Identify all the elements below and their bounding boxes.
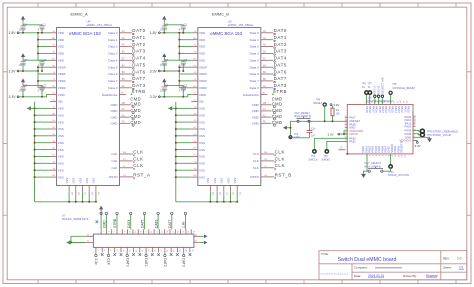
svg-text:DAT5: DAT5: [274, 62, 287, 67]
svg-text:3: 3: [107, 231, 109, 232]
svg-text:eMMC_153_FBGA: eMMC_153_FBGA: [87, 23, 112, 27]
svg-text:CMD: CMD: [110, 109, 118, 113]
power label 3.3V mcu top: [330, 104, 332, 106]
svg-text:3.3V: 3.3V: [9, 95, 17, 99]
MCU U6 body: [347, 105, 413, 154]
EMMC_A data pins right: [108, 28, 145, 83]
svg-text:EMMC_B: EMMC_B: [212, 11, 229, 16]
wire CONSOLE_RESET line: [390, 95, 392, 105]
svg-text:Data 3: Data 3: [250, 86, 259, 90]
wire EMMC_B bottom VSS net: [176, 191, 238, 203]
wire reset cap gnd: [291, 137, 310, 139]
svg-text:10: 10: [122, 250, 124, 252]
svg-text:PA20: PA20: [407, 106, 411, 113]
svg-text:26: 26: [172, 250, 174, 252]
svg-text:C6: C6: [24, 22, 28, 26]
svg-text:VDi: VDi: [58, 100, 63, 104]
svg-text:VSS: VSS: [58, 148, 64, 152]
svg-text:Sheet:: Sheet:: [443, 266, 452, 270]
svg-text:CLK: CLK: [275, 156, 285, 161]
svg-text:31: 31: [181, 231, 183, 233]
svg-text:RSTN: RSTN: [109, 175, 117, 179]
capacitor C3 4.7uF: [38, 83, 47, 92]
capacitor C14 1uF reset: [309, 121, 311, 138]
svg-text:4.7uF: 4.7uF: [179, 27, 186, 31]
testpoint STRAP_JOYCON ring: [389, 165, 392, 168]
svg-text:VDDi: VDDi: [199, 93, 206, 97]
wire 1.8V net B: [160, 32, 191, 34]
svg-text:2: 2: [97, 250, 99, 251]
connector U7 body: [93, 234, 193, 247]
svg-text:VSS: VSS: [199, 113, 205, 117]
EMMC_A CLK pins: [111, 149, 143, 170]
power symbol GND above C bank1 A: [21, 16, 25, 20]
svg-text:Hkamee: Hkamee: [426, 274, 438, 278]
svg-text:TP5: TP5: [392, 84, 397, 86]
ground arrow select: [361, 174, 365, 178]
EMMC_A pin Data 3 / DAT3: [120, 87, 132, 89]
svg-text:VSS: VSS: [220, 178, 224, 184]
svg-text:VSS: VSS: [199, 168, 205, 172]
svg-text:RST_A: RST_A: [133, 172, 150, 177]
border row ticks: [3, 72, 471, 215]
svg-text:DAT2: DAT2: [132, 42, 145, 47]
svg-text:STRAP_JOYCON: STRAP_JOYCON: [388, 173, 409, 177]
svg-text:MOLEX_90068-0374: MOLEX_90068-0374: [62, 217, 89, 221]
wire EMMC_B VSS bus: [175, 102, 192, 202]
svg-text:1.8V: 1.8V: [150, 31, 158, 35]
svg-text:VDD: VDD: [58, 38, 65, 42]
wire PA31 SWDIO: [327, 141, 348, 149]
svg-text:C8: C8: [43, 58, 47, 62]
svg-text:35: 35: [192, 231, 194, 233]
wire 3.3V net a A: [19, 70, 38, 72]
svg-text:CMD: CMD: [252, 109, 260, 113]
push button KEY_RESET: [297, 120, 299, 122]
svg-text:VSS: VSS: [199, 134, 205, 138]
svg-text:27: 27: [171, 231, 173, 233]
svg-text:Date:: Date:: [354, 274, 361, 278]
svg-text:3.3V: 3.3V: [328, 132, 334, 136]
svg-text:20: 20: [153, 250, 155, 252]
wire reset button gnd: [291, 121, 297, 136]
testpoint RESET ring: [323, 103, 326, 106]
capacitor C6 100nF: [160, 22, 169, 31]
svg-text:VSS: VSS: [199, 155, 205, 159]
svg-text:23: 23: [160, 231, 162, 233]
border column ticks bottom: [38, 280, 456, 284]
MCU left pins: [345, 116, 364, 144]
svg-text:30: 30: [184, 250, 186, 252]
svg-text:VSS: VSS: [85, 178, 89, 184]
svg-text:3.3v: 3.3v: [94, 258, 98, 265]
capacitor C6 100nF: [19, 22, 28, 31]
svg-text:CMD: CMD: [252, 103, 260, 107]
no-connect arrow right 1: [204, 235, 208, 239]
svg-text:CMD: CMD: [110, 103, 118, 107]
svg-text:VDDF: VDDF: [58, 86, 66, 90]
svg-text:17: 17: [144, 231, 146, 233]
svg-text:40: 40: [195, 234, 197, 236]
svg-text:DAT3: DAT3: [132, 49, 145, 54]
testpoint GND ring: [289, 136, 292, 139]
wire STRB jog: [272, 93, 273, 94]
svg-text:REV:: REV:: [443, 257, 450, 261]
wire KEY_B line: [378, 97, 380, 104]
wire VDD bus B: [163, 32, 191, 61]
svg-text:CLK: CLK: [133, 156, 143, 161]
wire cap bank1 bottom B: [164, 28, 183, 33]
svg-text:C8: C8: [184, 58, 188, 62]
svg-text:18: 18: [147, 250, 149, 252]
svg-text:42: 42: [195, 241, 197, 243]
svg-text:13: 13: [134, 231, 136, 233]
EMMC_B pin Data 3 / DAT3: [261, 87, 273, 89]
svg-text:CONSOLE_RESET: CONSOLE_RESET: [392, 86, 415, 90]
ground arrow U7 left: [67, 240, 71, 244]
svg-text:VDD: VDD: [199, 38, 206, 42]
svg-text:Data 4: Data 4: [108, 58, 117, 62]
svg-text:VDD: VDD: [199, 45, 206, 49]
power symbol GND above C bank1 B: [162, 16, 166, 20]
svg-text:eMMC BGA 153: eMMC BGA 153: [69, 31, 101, 36]
wire MCU GND right: [413, 137, 430, 138]
svg-text:DAT3: DAT3: [132, 83, 145, 88]
wire PA30 SWCLK: [314, 138, 347, 150]
svg-text:C1: C1: [43, 22, 47, 26]
svg-text:DAT2: DAT2: [163, 258, 167, 267]
capacitor C1 4.7uF: [38, 22, 47, 31]
svg-text:Drawn By:: Drawn By:: [403, 274, 417, 278]
capacitor C3 4.7uF: [179, 83, 188, 92]
connector U7 right pins NC: [194, 236, 200, 242]
no-connect x top: [96, 220, 99, 223]
svg-text:TITLE:: TITLE:: [321, 252, 329, 256]
svg-text:Data 1: Data 1: [250, 38, 259, 42]
wire EMMC_A bottom VSS net: [35, 191, 97, 203]
EMMC_B CLK pins: [253, 149, 285, 170]
svg-text:VSS: VSS: [58, 107, 64, 111]
svg-text:CMD: CMD: [252, 122, 260, 126]
wire VDDF bus B: [163, 66, 191, 88]
connector U7 top pins: [101, 229, 194, 234]
wire cap bank1 top B: [164, 23, 183, 26]
svg-text:C9: C9: [24, 58, 28, 62]
svg-text:100nF: 100nF: [160, 27, 168, 31]
svg-text:8: 8: [116, 250, 118, 251]
svg-text:24: 24: [166, 250, 168, 252]
wire VDDIN net: [340, 131, 348, 134]
border column ticks top: [38, 3, 456, 7]
svg-text:VSS: VSS: [58, 120, 64, 124]
svg-text:4.7uF: 4.7uF: [179, 88, 186, 92]
svg-text:7: 7: [118, 231, 120, 232]
svg-text:VDD: VDD: [199, 52, 206, 56]
svg-text:11: 11: [128, 231, 130, 233]
wire VDD bus A: [22, 32, 50, 61]
svg-text:VDD: VDD: [58, 45, 65, 49]
svg-text:PA31: PA31: [349, 140, 356, 144]
svg-text:39: 39: [87, 234, 89, 236]
capacitor C5 100nF: [19, 83, 28, 92]
svg-text:VSS: VSS: [58, 113, 64, 117]
ground arrow EMMC_B VSS: [168, 106, 172, 110]
connector U7 left pins: [86, 236, 94, 242]
wire cap bank3 bottom B: [164, 89, 183, 97]
svg-text:DAT3: DAT3: [274, 49, 287, 54]
power symbol GND above C bank2 B: [162, 53, 166, 57]
testpoint SWDIO ring: [325, 150, 328, 153]
svg-text:CLK: CLK: [275, 163, 285, 168]
ground arrow MCU right: [427, 139, 431, 143]
svg-text:VDD: VDD: [58, 58, 65, 62]
testpoint STRAP_VOLUP ring: [420, 133, 424, 137]
svg-text:DataStrobe: DataStrobe: [243, 93, 259, 97]
svg-text:Data 6: Data 6: [108, 72, 117, 76]
connector U7 bottom pins: [94, 247, 193, 266]
svg-text:Data 7: Data 7: [250, 79, 259, 83]
svg-text:C3: C3: [43, 83, 47, 87]
svg-text:VSS: VSS: [92, 178, 96, 184]
svg-text:4.7uF: 4.7uF: [38, 27, 45, 31]
svg-text:1: 1: [102, 231, 104, 232]
svg-text:Data 3: Data 3: [108, 86, 117, 90]
svg-text:VSS: VSS: [199, 162, 205, 166]
svg-text:DAT5: DAT5: [132, 62, 145, 67]
wire cap bank2 top B: [164, 60, 183, 62]
svg-text:3.3V: 3.3V: [150, 95, 158, 99]
svg-text:DAT0: DAT0: [132, 28, 145, 33]
svg-text:VDDF: VDDF: [199, 65, 207, 69]
svg-text:C5: C5: [165, 83, 169, 87]
svg-text:19: 19: [150, 231, 152, 233]
EMMC_A left pins: [50, 31, 66, 179]
svg-text:KiCad E.D.A. kicad (5.1.2)-1: KiCad E.D.A. kicad (5.1.2)-1: [321, 273, 349, 276]
svg-text:C3: C3: [184, 83, 188, 87]
wire VDDi net B: [160, 95, 191, 97]
svg-text:VSS: VSS: [58, 134, 64, 138]
svg-text:CLK: CLK: [133, 149, 143, 154]
EMMC_B CMD pins: [252, 102, 283, 127]
svg-text:Switch Dual eMMC board: Switch Dual eMMC board: [338, 257, 397, 263]
wire VDDi net A: [19, 95, 50, 97]
MCU bottom pins: [361, 141, 405, 158]
resistor R1 10k: [332, 106, 334, 122]
svg-text:DAT4: DAT4: [274, 56, 287, 61]
power symbol GND above C bank3 A: [21, 78, 25, 82]
svg-text:3.3V: 3.3V: [150, 69, 158, 73]
svg-text:VSS: VSS: [72, 178, 76, 184]
svg-text:4: 4: [103, 250, 105, 251]
svg-text:VSS: VSS: [78, 178, 82, 184]
svg-text:VSS: VSS: [199, 107, 205, 111]
svg-text:DAT3: DAT3: [182, 258, 186, 267]
svg-text:32: 32: [191, 250, 193, 252]
svg-text:CLK: CLK: [253, 159, 260, 163]
svg-text:16: 16: [141, 250, 143, 252]
svg-text:100nF: 100nF: [160, 63, 168, 67]
svg-text:RESETN: RESETN: [400, 141, 404, 152]
svg-text:DAT3: DAT3: [274, 83, 287, 88]
svg-text:VDDi: VDDi: [58, 93, 65, 97]
svg-text:100nF: 100nF: [19, 88, 27, 92]
svg-text:DAT1: DAT1: [144, 258, 148, 267]
capacitor C1 4.7uF: [179, 22, 188, 31]
svg-text:CMD: CMD: [103, 220, 107, 228]
svg-text:100nF: 100nF: [19, 63, 27, 67]
ground arrow reset: [283, 126, 287, 130]
svg-text:Data 5: Data 5: [108, 65, 117, 69]
MCU top pins: [365, 100, 411, 113]
svg-text:DAT4: DAT4: [132, 56, 145, 61]
svg-text:DAT4: DAT4: [127, 219, 131, 228]
svg-text:EMMC_A: EMMC_A: [71, 11, 88, 16]
wire VDDANA 3.3V: [413, 140, 417, 141]
wire SWD D- line: [369, 95, 371, 105]
capacitor C8 4.7uF: [179, 58, 188, 67]
svg-text:5: 5: [113, 231, 115, 232]
svg-text:VDD: VDD: [199, 31, 206, 35]
wire select gnd: [364, 171, 369, 174]
capacitor C8 4.7uF: [38, 58, 47, 67]
EMMC_B bottom VSS pins: [206, 178, 240, 196]
wire VDDF bus A: [22, 66, 50, 88]
svg-text:Data 3: Data 3: [250, 52, 259, 56]
svg-text:CMD: CMD: [110, 115, 118, 119]
svg-text:DAT0: DAT0: [274, 28, 287, 33]
svg-text:VDDF: VDDF: [199, 79, 207, 83]
testpoint D+ ring: [365, 91, 368, 94]
svg-text:22: 22: [159, 250, 161, 252]
svg-text:C9: C9: [165, 58, 169, 62]
testpoint SWCLK ring: [313, 150, 316, 153]
svg-text:VSS: VSS: [58, 127, 64, 131]
svg-text:SWDIO: SWDIO: [322, 158, 331, 162]
EMMC_A bottom VSS pins: [65, 178, 99, 196]
svg-text:VSS: VSS: [213, 178, 217, 184]
svg-text:15: 15: [139, 231, 141, 233]
svg-text:VSS: VSS: [206, 178, 210, 184]
connector U7 top net wires: [103, 212, 187, 229]
title block frame: [319, 251, 467, 280]
svg-text:1uF: 1uF: [311, 136, 316, 138]
svg-text:CLK: CLK: [111, 152, 118, 156]
EMMC_A CMD pins: [110, 102, 141, 127]
svg-text:VDDF: VDDF: [58, 79, 66, 83]
svg-text:CMD: CMD: [252, 115, 260, 119]
svg-text:RST_B: RST_B: [275, 172, 292, 177]
svg-text:2019-03-31: 2019-03-31: [368, 274, 385, 278]
svg-text:Company:: Company:: [354, 266, 368, 270]
svg-text:STRB: STRB: [113, 218, 117, 228]
svg-text:DAT1: DAT1: [132, 35, 145, 40]
testpoint CONSOLE_RESET ring: [389, 91, 392, 94]
svg-text:DAT0: DAT0: [125, 258, 129, 267]
svg-text:eMMC_153_FBGA: eMMC_153_FBGA: [228, 23, 253, 27]
svg-text:C6: C6: [165, 22, 169, 26]
svg-text:Data 3: Data 3: [108, 52, 117, 56]
svg-text:DAT6: DAT6: [274, 69, 287, 74]
svg-text:VSS: VSS: [58, 162, 64, 166]
wire 3.3V net a B: [160, 70, 179, 72]
svg-text:Data 6: Data 6: [250, 72, 259, 76]
svg-text:Data 5: Data 5: [250, 65, 259, 69]
svg-text:STRB: STRB: [273, 89, 287, 94]
capacitor C5 100nF: [160, 83, 169, 92]
svg-text:VDD: VDD: [58, 52, 65, 56]
eMMC chip U EMMC_B body: [198, 28, 261, 186]
svg-text:14: 14: [134, 250, 136, 252]
svg-text:VSS: VSS: [199, 120, 205, 124]
capacitor C9 100nF: [19, 58, 28, 67]
wire STRAP_USBENABLE: [413, 130, 420, 133]
svg-text:C5: C5: [24, 83, 28, 87]
svg-text:CLK: CLK: [253, 166, 260, 170]
wire STRAP_JOYCON: [390, 154, 392, 165]
svg-text:DAT1: DAT1: [274, 35, 287, 40]
svg-text:VSS: VSS: [199, 175, 205, 179]
svg-text:DataStrobe: DataStrobe: [102, 93, 118, 97]
svg-text:1.0: 1.0: [457, 257, 462, 261]
svg-text:CLK: CLK: [253, 152, 260, 156]
EMMC_A RSTn pin: [120, 176, 133, 178]
svg-text:C1: C1: [184, 22, 188, 26]
svg-text:Data 0: Data 0: [108, 31, 117, 35]
wire STRAP_VOLUP: [413, 134, 420, 135]
svg-text:4.7uF: 4.7uF: [38, 88, 45, 92]
wire STRB jog: [131, 93, 132, 94]
svg-text:Data 4: Data 4: [250, 58, 259, 62]
capacitor C9 100nF: [160, 58, 169, 67]
MCU right pins: [400, 115, 417, 142]
svg-text:VDD: VDD: [58, 31, 65, 35]
svg-text:Data 1: Data 1: [108, 38, 117, 42]
svg-text:VSS: VSS: [199, 127, 205, 131]
svg-text:3.3V: 3.3V: [415, 144, 421, 148]
svg-text:VDDF: VDDF: [58, 65, 66, 69]
svg-text:CMD: CMD: [272, 97, 283, 102]
svg-text:Data 7: Data 7: [108, 79, 117, 83]
svg-text:CLK: CLK: [133, 163, 143, 168]
svg-text:28: 28: [178, 250, 180, 252]
svg-text:DAT2: DAT2: [274, 42, 287, 47]
svg-text:TP8 STRAP_USBENABLE: TP8 STRAP_USBENABLE: [427, 129, 458, 133]
svg-text:VSS: VSS: [58, 141, 64, 145]
svg-text:VSS: VSS: [58, 168, 64, 172]
EMMC_A pin DataStrobe / STRB: [120, 94, 127, 96]
svg-text:VSS: VSS: [58, 175, 64, 179]
testpoint D- ring: [368, 91, 371, 94]
push button KEY_SELECT: [368, 170, 370, 172]
svg-text:CLK: CLK: [111, 159, 118, 163]
svg-text:GND: GND: [294, 135, 300, 139]
svg-text:BSU-1044P-B: BSU-1044P-B: [295, 114, 312, 118]
testpoint STRAP_USBENABLE ring: [420, 129, 424, 133]
svg-text:1.8V: 1.8V: [9, 31, 17, 35]
svg-text:eMMC BGA 153: eMMC BGA 153: [210, 31, 242, 36]
EMMC_B left pins: [191, 31, 207, 179]
svg-text:Data 2: Data 2: [250, 45, 259, 49]
svg-text:1.8v: 1.8v: [182, 221, 186, 228]
svg-text:3.3V: 3.3V: [333, 103, 339, 107]
svg-text:41: 41: [87, 241, 89, 243]
svg-text:Data 2: Data 2: [108, 45, 117, 49]
svg-text:STRB: STRB: [132, 89, 146, 94]
wire cap bank3 bottom A: [23, 89, 42, 97]
svg-text:DAT5: DAT5: [141, 219, 145, 228]
wire SWD D+ line: [366, 95, 368, 105]
svg-text:RESET: RESET: [314, 101, 323, 105]
